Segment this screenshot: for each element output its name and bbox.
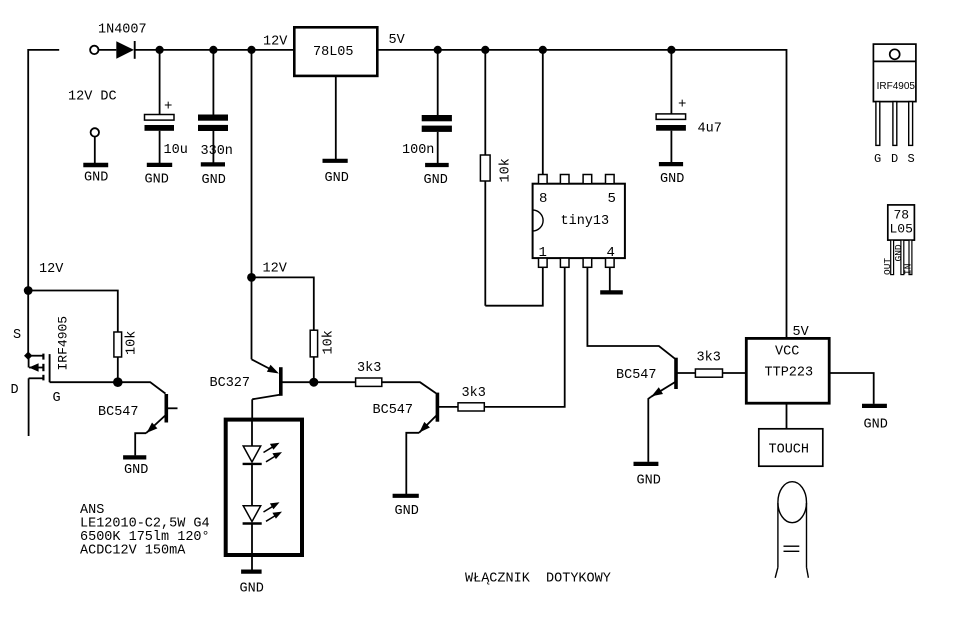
svg-text:10k: 10k bbox=[125, 331, 140, 355]
wire pin3 down-right bbox=[587, 267, 674, 358]
wire LED middle bbox=[251, 464, 253, 506]
resistor R1 10k reset pullup bbox=[480, 50, 490, 306]
svg-text:GND: GND bbox=[660, 172, 684, 187]
svg-text:GND: GND bbox=[864, 418, 888, 433]
wire 78L05 ground pin bbox=[335, 76, 337, 161]
svg-text:330n: 330n bbox=[201, 144, 233, 159]
svg-text:TTP223: TTP223 bbox=[765, 366, 814, 381]
pin 1 bottom bbox=[539, 258, 548, 267]
capacitor C4 4u7 bbox=[656, 50, 686, 164]
IC U3 TTP223 bbox=[746, 338, 829, 403]
svg-text:BC547: BC547 bbox=[373, 403, 414, 418]
node junction C2 bbox=[209, 46, 217, 54]
IC notch bbox=[533, 210, 544, 231]
svg-text:D: D bbox=[891, 152, 898, 166]
svg-text:+: + bbox=[164, 99, 172, 115]
svg-text:IRF4905: IRF4905 bbox=[56, 316, 71, 371]
svg-text:S: S bbox=[908, 152, 915, 166]
resistor R6 10k bbox=[114, 332, 122, 357]
resistor R4 3k3 bbox=[458, 403, 484, 411]
ground LED bbox=[241, 569, 262, 573]
wire pin1 to resistor bbox=[485, 267, 543, 305]
svg-text:GND: GND bbox=[202, 173, 226, 188]
wire Q4 collector from pin3 done above; transistor Q4 BC547 bbox=[648, 358, 695, 462]
wire pin2 down-left bbox=[484, 267, 564, 407]
resistor R2 10k bbox=[310, 330, 317, 357]
ground 78L05 bbox=[323, 159, 348, 163]
svg-text:D: D bbox=[11, 383, 19, 398]
svg-text:1N4007: 1N4007 bbox=[98, 23, 147, 38]
wire gate node to MOSFET gate bbox=[50, 381, 118, 383]
node junction 12V branch bbox=[247, 46, 255, 54]
transistor Q2 BC327 bbox=[252, 277, 281, 419]
pin 8 top bbox=[539, 175, 548, 184]
svg-text:ACDC12V 150mA: ACDC12V 150mA bbox=[80, 544, 186, 559]
node junction C1 bbox=[156, 46, 164, 54]
wire 12V branch down bbox=[251, 50, 253, 278]
wire base node to BC327 bbox=[281, 381, 314, 383]
svg-text:10k: 10k bbox=[499, 158, 514, 182]
node 12V branch BC327 bbox=[247, 273, 256, 282]
svg-text:3k3: 3k3 bbox=[357, 361, 381, 376]
finger drawing bbox=[775, 482, 808, 578]
regulator U2 78L05 bbox=[294, 27, 377, 76]
svg-text:3k3: 3k3 bbox=[697, 351, 721, 366]
ground Q5 bbox=[123, 455, 146, 459]
ground Q4 bbox=[634, 462, 659, 466]
terminal 12V input bbox=[90, 46, 98, 54]
pin 4 bottom bbox=[606, 258, 615, 267]
svg-text:BC327: BC327 bbox=[210, 376, 251, 391]
svg-text:12V: 12V bbox=[39, 262, 64, 277]
wire LED bottom bbox=[251, 524, 253, 570]
node gate bbox=[113, 377, 123, 387]
wire 10k to base node bbox=[313, 357, 315, 382]
pin 2 bottom bbox=[560, 258, 569, 267]
svg-text:S: S bbox=[13, 328, 21, 343]
svg-text:GND: GND bbox=[145, 173, 169, 188]
svg-text:GND: GND bbox=[893, 244, 904, 261]
svg-text:78: 78 bbox=[894, 208, 910, 223]
wire 3k3 to Q3 collector bbox=[382, 382, 436, 393]
ground pin4 bbox=[600, 290, 623, 294]
svg-text:12V DC: 12V DC bbox=[68, 90, 117, 105]
svg-text:5: 5 bbox=[608, 191, 616, 207]
IC U1 tiny13 bbox=[533, 184, 625, 258]
svg-text:12V: 12V bbox=[263, 262, 288, 277]
package IRF4905 TO-220 bbox=[873, 44, 916, 145]
svg-text:L05: L05 bbox=[890, 222, 913, 237]
node BC327 base bbox=[309, 378, 318, 387]
svg-text:G: G bbox=[53, 391, 61, 406]
svg-text:78L05: 78L05 bbox=[313, 45, 354, 60]
svg-text:5V: 5V bbox=[389, 33, 406, 48]
svg-text:TOUCH: TOUCH bbox=[769, 442, 810, 457]
svg-text:8: 8 bbox=[539, 191, 547, 207]
TOUCH pad box bbox=[759, 429, 823, 466]
capacitor C3 100n bbox=[422, 50, 452, 165]
package 78L05 TO-92 bbox=[888, 205, 915, 275]
label ANS block bbox=[80, 503, 210, 559]
svg-text:+: + bbox=[678, 97, 686, 113]
LED D3 bbox=[243, 502, 282, 523]
node junction pin8 bbox=[539, 46, 547, 54]
svg-text:GND: GND bbox=[84, 171, 108, 186]
svg-text:IRF4905: IRF4905 bbox=[877, 81, 916, 92]
svg-text:GND: GND bbox=[325, 171, 349, 186]
wire base node to 3k3 bbox=[314, 381, 356, 383]
ground Q3 bbox=[393, 494, 419, 498]
wire 12V to 10k R2 bbox=[252, 277, 314, 330]
wire TTP223 output to ground bbox=[829, 373, 874, 404]
pin 7 top bbox=[560, 175, 569, 184]
wire pin4 ground bbox=[609, 267, 611, 291]
svg-text:3k3: 3k3 bbox=[462, 386, 486, 401]
capacitor C1 10u bbox=[145, 50, 175, 165]
wire gate node to Q5 bbox=[118, 382, 166, 393]
capacitor C2 330n bbox=[198, 50, 228, 164]
svg-text:4u7: 4u7 bbox=[698, 122, 722, 137]
svg-text:tiny13: tiny13 bbox=[561, 214, 610, 229]
wire 12V rail bbox=[135, 49, 295, 51]
pin 5 top bbox=[606, 175, 615, 184]
svg-text:GND: GND bbox=[637, 474, 661, 489]
transistor Q1 IRF4905 bbox=[24, 352, 50, 437]
wire 12V to gate resistor bbox=[28, 291, 118, 333]
svg-text:1: 1 bbox=[539, 245, 547, 261]
LED D2 bbox=[243, 443, 282, 464]
svg-text:OUT: OUT bbox=[882, 258, 893, 275]
transistor Q3 BC547 bbox=[406, 393, 458, 494]
svg-text:WŁĄCZNIK DOTYKOWY: WŁĄCZNIK DOTYKOWY bbox=[465, 572, 611, 587]
svg-text:IN: IN bbox=[902, 264, 913, 275]
resistor R3 3k3 bbox=[356, 378, 382, 386]
diode D1 1N4007 bbox=[116, 41, 134, 59]
wire 3k3 to TTP223 bbox=[723, 372, 747, 374]
node junction 100n bbox=[434, 46, 442, 54]
svg-text:BC547: BC547 bbox=[98, 405, 139, 420]
wire terminal to diode bbox=[99, 49, 117, 51]
wire TTP223 to TOUCH bbox=[786, 403, 788, 429]
svg-text:VCC: VCC bbox=[775, 344, 799, 359]
wire 10k to gate node bbox=[117, 357, 119, 382]
svg-text:10k: 10k bbox=[322, 330, 337, 354]
svg-text:4: 4 bbox=[607, 245, 615, 261]
pin 6 top bbox=[583, 175, 592, 184]
node 12V input dot (IRF4905 branch) bbox=[24, 286, 33, 295]
wire pin8 to 5V bbox=[542, 50, 544, 175]
svg-text:12V: 12V bbox=[263, 34, 288, 49]
LED module box bbox=[226, 420, 302, 555]
wire LED chain top bbox=[251, 420, 253, 446]
terminal GND input bbox=[83, 128, 108, 165]
resistor R5 3k3 bbox=[695, 369, 722, 377]
pin 3 bottom bbox=[583, 258, 592, 267]
svg-text:BC547: BC547 bbox=[616, 368, 657, 383]
svg-text:100n: 100n bbox=[402, 143, 434, 158]
svg-text:GND: GND bbox=[240, 582, 264, 597]
svg-text:GND: GND bbox=[124, 463, 148, 478]
svg-text:GND: GND bbox=[395, 504, 419, 519]
ground TTP223 out bbox=[862, 404, 887, 408]
node junction 4u7 bbox=[667, 46, 675, 54]
svg-text:G: G bbox=[874, 152, 881, 166]
svg-text:GND: GND bbox=[424, 173, 448, 188]
node junction 10k reset bbox=[481, 46, 489, 54]
transistor Q5 BC547 bbox=[135, 394, 177, 455]
wire top-left stub bbox=[28, 50, 59, 356]
svg-text:10u: 10u bbox=[164, 143, 188, 158]
wire 5V rail bbox=[377, 50, 786, 339]
